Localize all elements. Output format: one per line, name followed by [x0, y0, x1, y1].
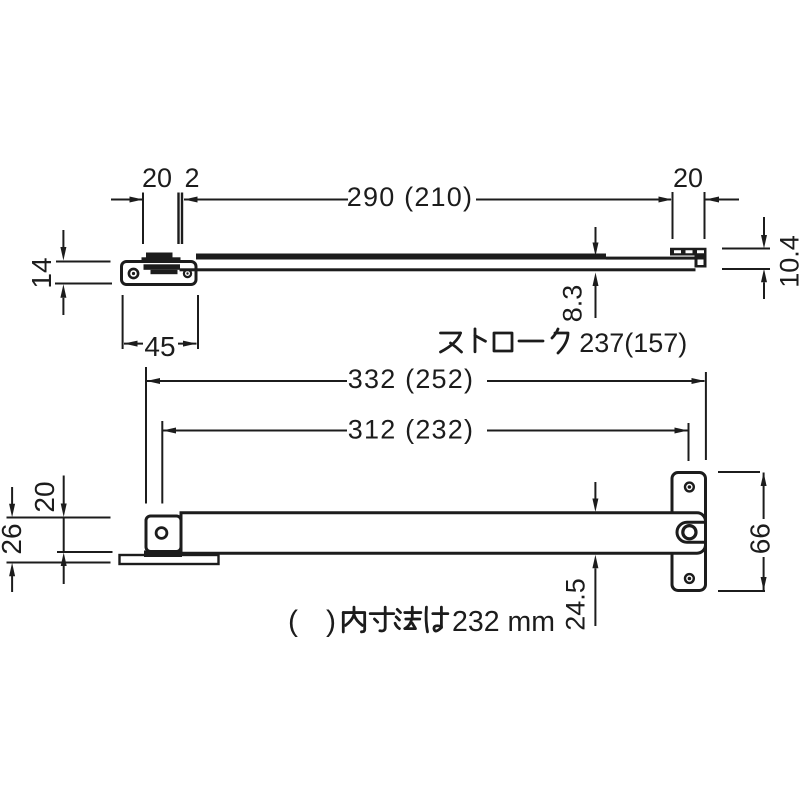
dim line 20 span	[63, 517, 65, 552]
dim line 24.5 lower tail	[594, 568, 596, 626]
arrow up at y472.5 (66)	[761, 473, 767, 487]
dim line 10.4 upper tail	[763, 217, 765, 235]
bottom view left pivot hole	[156, 528, 167, 539]
bottom view pivot housing	[677, 522, 706, 542]
ext line y261.5	[56, 261, 111, 263]
arrow down at y590.5 (66)	[761, 577, 767, 591]
dim line 8.3 lower tail	[595, 286, 597, 318]
svg-text:312 (232): 312 (232)	[348, 415, 474, 445]
arrow down at y248.5	[761, 235, 767, 249]
top view rod end black band	[670, 248, 707, 256]
dim line 8.3 upper tail	[595, 227, 597, 243]
bottom view bracket foot	[144, 551, 182, 558]
arrow right at x672	[659, 197, 673, 203]
arrow up at y284	[60, 284, 66, 298]
ext line y552 (bracket bottom)	[57, 551, 113, 553]
bottom view right mounting plate	[672, 473, 706, 591]
arrow left at x705.5	[706, 197, 720, 203]
ext line x704.5	[704, 192, 706, 239]
dim line 45 right segment	[178, 343, 197, 345]
bottom view left pivot bracket	[146, 516, 181, 552]
dim line 26 upper tail	[11, 487, 13, 504]
dim line 290 left segment	[184, 199, 348, 201]
dim line 332 left segment	[147, 380, 348, 382]
ext line x146 (left overall)	[145, 367, 147, 504]
dim line 20-left leader	[111, 199, 142, 201]
svg-text:20: 20	[673, 163, 703, 193]
ext line x688.5 (right pivot)	[688, 423, 690, 461]
dim line 20 upper tail	[63, 476, 65, 504]
dim line 332 right segment	[487, 380, 705, 382]
bottom view plate bottom hole	[685, 574, 694, 583]
svg-text:8.3: 8.3	[558, 285, 588, 323]
arrow down at y261	[60, 247, 66, 261]
ext line x706 (right overall)	[705, 372, 707, 460]
dim line 24.5 upper tail	[594, 482, 596, 499]
arrow down at y517	[61, 504, 67, 518]
arrow down at y512 (24.5)	[592, 499, 598, 513]
svg-text:2: 2	[184, 163, 199, 193]
svg-text:332 (252): 332 (252)	[348, 364, 474, 394]
ext line y283.5	[55, 283, 112, 285]
dim line 14 upper tail	[62, 230, 64, 248]
dim line 26 lower tail	[11, 576, 13, 592]
dim line 312 left segment	[163, 430, 348, 432]
svg-text:14: 14	[26, 257, 57, 288]
dim line 312 right segment	[487, 430, 688, 432]
dim line 66 lower segment	[763, 557, 765, 591]
svg-text:237(157): 237(157)	[579, 328, 687, 358]
label stroke katakana スト口ーク	[441, 333, 462, 352]
svg-text:(: (	[288, 605, 298, 638]
arrow right at x705.5	[692, 378, 706, 384]
top view slider clamp upper tab	[146, 253, 173, 259]
top view slider clamp lower band	[144, 264, 181, 270]
arrow down at y517.5 (26)	[9, 504, 15, 518]
top view arm bottom edge	[180, 268, 696, 271]
dim line 10.4 lower tail	[763, 282, 765, 299]
arrow right at x688	[675, 428, 689, 434]
svg-text:24.5: 24.5	[561, 578, 591, 631]
arrow left at x146.5	[147, 378, 161, 384]
ext line x162 (left hole)	[161, 421, 163, 504]
top view arm top edge thick	[196, 254, 606, 260]
arrow down at y256	[593, 243, 599, 257]
arrow left at x184	[184, 197, 198, 203]
dim line 14 lower tail	[62, 298, 64, 315]
arrow up at y269	[761, 269, 767, 283]
arrow right at x143	[130, 197, 144, 203]
bottom view main arm	[181, 513, 706, 553]
top view bracket right hole	[184, 270, 191, 277]
svg-text:20: 20	[142, 163, 172, 193]
top view rod end cap	[695, 256, 707, 268]
ext line y472 (plate top)	[718, 471, 760, 473]
svg-text:232 mm: 232 mm	[452, 606, 555, 638]
arrow up at y562.5 (26)	[9, 563, 15, 577]
ext line y269	[722, 268, 770, 270]
ext line x672.5	[672, 192, 674, 239]
top view bracket left hole	[129, 269, 138, 278]
ext line x182	[181, 193, 183, 245]
bottom view plate top hole	[685, 483, 694, 492]
arrow left at x162.5	[163, 428, 177, 434]
top view slider clamp lower tab	[151, 270, 178, 274]
svg-text:45: 45	[144, 331, 175, 362]
dim line 20 lower tail	[63, 566, 65, 584]
ext line x198	[197, 295, 199, 349]
ext line y591 (plate bottom)	[718, 590, 765, 592]
svg-text:10.4: 10.4	[775, 235, 800, 288]
ext line y562.5 (plate bottom)	[7, 562, 111, 564]
arrow left at x124	[124, 341, 138, 347]
dim line 45 left segment	[124, 343, 143, 345]
svg-text:20: 20	[29, 481, 60, 512]
ext line x122.6	[122, 295, 124, 349]
arrow up at y272.5	[593, 273, 599, 287]
bottom view plate right edge over arm	[704, 506, 707, 560]
svg-text:): )	[326, 605, 336, 638]
ext line y517.5 (bracket top)	[7, 517, 111, 519]
arrow right at x196.5	[183, 341, 197, 347]
ext line y248.5	[722, 248, 770, 250]
bottom view pivot nut	[683, 526, 696, 539]
dim line 290 right segment	[476, 199, 671, 201]
bottom view base plate	[120, 555, 219, 564]
ext line x178.5	[177, 193, 179, 245]
svg-text:290 (210): 290 (210)	[347, 182, 473, 212]
top view slider clamp upper band	[142, 257, 181, 263]
dim line 20-right leader	[706, 199, 740, 201]
top view rod top edge thin	[606, 257, 695, 260]
dim line 66 upper segment	[763, 473, 765, 520]
arrow up at y552.5	[61, 553, 67, 567]
top view mounting bracket plate	[122, 262, 197, 285]
svg-text:26: 26	[0, 523, 27, 554]
svg-text:66: 66	[745, 523, 776, 554]
ext line x143	[142, 193, 144, 245]
arrow up at y554.5 (24.5)	[592, 555, 598, 569]
